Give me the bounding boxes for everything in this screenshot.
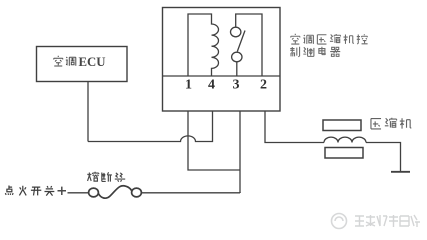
svg-text:2: 2 [260, 78, 267, 93]
svg-text:ECU: ECU [79, 55, 106, 69]
plus sign of 点火开关+ [58, 187, 67, 195]
wire from coil to ground [366, 143, 401, 172]
ground symbol [391, 171, 410, 173]
wire: ECU down to relay pin4 horizontal [87, 82, 89, 142]
relay switch contact (pins 2-3) [231, 14, 263, 76]
relay coil (pins 1-4) [188, 14, 219, 76]
label 熔断丝 (fuse) [88, 172, 126, 182]
box: A/C ECU (air conditioning ECU) [37, 47, 128, 82]
svg-text:3: 3 [233, 78, 240, 93]
relay K1 outer case [163, 8, 281, 112]
compressor connector block top [323, 120, 361, 131]
wire pin1 down and right to junction [188, 111, 240, 170]
wire pin3 down to bottom feed wire [239, 111, 241, 193]
relay terminal strip line [163, 75, 281, 77]
wire pin4 down, left to ECU with hop over pin1 wire [88, 111, 213, 142]
svg-text:1: 1 [185, 78, 192, 93]
label 点火开关 (ignition switch) [5, 186, 54, 196]
svg-text:4: 4 [208, 78, 215, 93]
label 空调ECU [54, 56, 76, 66]
label 空调压缩机控 (line 1 of relay label) [291, 34, 368, 44]
wire pin2 down and right to compressor [265, 111, 324, 143]
fuse F1 symbol [89, 186, 142, 198]
label 制继电器 (line 2 of relay label) [290, 47, 340, 57]
watermark logo circle [332, 214, 347, 229]
watermark text 楚安汽车资料 [355, 215, 420, 227]
label 压缩机 (compressor) [371, 118, 411, 129]
bottom feed wire from ignition to pin3 [68, 192, 241, 194]
compressor connector block bottom [325, 148, 363, 159]
pin number labels 1 4 3 2 [185, 78, 267, 93]
compressor clutch coil on wire [324, 137, 366, 142]
